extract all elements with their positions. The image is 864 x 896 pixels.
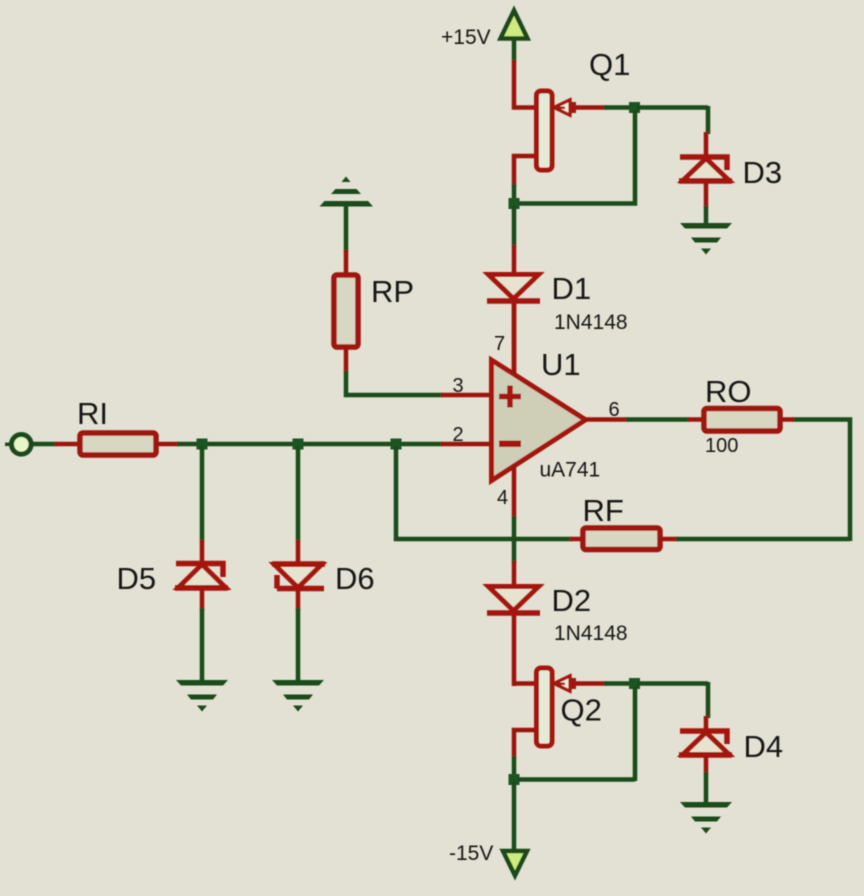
resistor RF xyxy=(570,528,678,550)
svg-text:+15V: +15V xyxy=(441,26,491,49)
wire D6 branch xyxy=(296,446,301,542)
plus input mark xyxy=(499,386,521,408)
wire pin6 to RO xyxy=(626,417,690,422)
diode D5 (zener) xyxy=(175,540,228,610)
ground (below D3) xyxy=(680,223,732,255)
wire D5 to ground xyxy=(200,608,205,682)
resistor RP xyxy=(334,250,358,373)
svg-text:Q2: Q2 xyxy=(561,693,602,728)
wire node to D1 xyxy=(512,206,517,247)
junction node D6 xyxy=(293,439,304,450)
wire gate node to D3 xyxy=(637,106,708,134)
wire input line xyxy=(177,442,443,447)
svg-text:1N4148: 1N4148 xyxy=(554,622,628,645)
ground (below D4) xyxy=(680,802,732,834)
svg-text:D5: D5 xyxy=(117,561,157,596)
wire RP to pin3 xyxy=(346,371,443,395)
wire D4 to ground xyxy=(704,772,709,804)
wire Q1 gate to node xyxy=(604,105,633,110)
gate pin wire xyxy=(576,105,606,110)
svg-text:U1: U1 xyxy=(541,347,581,382)
svg-text:RO: RO xyxy=(705,374,752,409)
svg-text:uA741: uA741 xyxy=(540,459,601,482)
gate arrow xyxy=(554,100,570,115)
svg-text:100: 100 xyxy=(705,435,738,457)
wire RF to feedback corner xyxy=(676,420,850,542)
channel bar xyxy=(537,668,553,746)
wire Q2 source to node xyxy=(512,756,517,778)
minus input mark xyxy=(499,441,521,448)
svg-text:D6: D6 xyxy=(335,561,375,596)
ground (below D6) xyxy=(272,680,324,712)
diode D1 xyxy=(487,245,540,374)
drain pin wire xyxy=(514,60,535,108)
wire terminal to RI xyxy=(32,442,57,447)
svg-text:Q1: Q1 xyxy=(589,47,630,82)
svg-text:RF: RF xyxy=(583,493,624,528)
pin 7 wire xyxy=(512,303,517,374)
pin 4 wire xyxy=(512,464,517,518)
wire +15V stem xyxy=(512,40,517,62)
pin 6 wire xyxy=(584,417,628,422)
resistor RO xyxy=(688,409,794,432)
ground (above RP, inverted) xyxy=(320,177,374,207)
pin 2 wire xyxy=(441,442,489,447)
op-amp U1 xyxy=(441,303,628,518)
junction node D5 xyxy=(197,439,208,450)
body triangle xyxy=(492,360,586,481)
junction node Q2 gate xyxy=(629,678,640,689)
junction node source xyxy=(509,198,520,209)
svg-text:7: 7 xyxy=(494,333,505,355)
svg-text:4: 4 xyxy=(497,487,508,509)
wire gate node to D4 xyxy=(637,682,708,718)
wire inverting node down to RF xyxy=(396,446,572,539)
svg-text:D2: D2 xyxy=(552,583,592,618)
ground (below D5) xyxy=(176,680,228,712)
svg-text:3: 3 xyxy=(453,375,464,397)
wire gate node down to source node xyxy=(518,110,635,204)
drain pin wire xyxy=(514,681,535,686)
pin 3 wire xyxy=(441,393,489,398)
channel bar xyxy=(537,91,553,170)
gate arrow xyxy=(554,676,570,691)
diode D2 xyxy=(487,561,540,686)
transistor Q1 xyxy=(514,60,606,186)
terminal input xyxy=(5,435,31,455)
wire source node to gate node xyxy=(518,687,635,781)
wire pin4 to D2 xyxy=(512,516,517,563)
power +15V symbol xyxy=(501,11,528,39)
source pin wire xyxy=(514,156,535,186)
source pin wire xyxy=(514,730,535,758)
gate pin wire xyxy=(576,681,606,686)
svg-text:6: 6 xyxy=(609,399,620,421)
wire ground to RP xyxy=(344,206,349,252)
junction node gate/drain loop xyxy=(629,102,640,113)
junction node source Q2 xyxy=(509,774,520,785)
svg-text:RP: RP xyxy=(371,274,414,309)
diode D6 (zener, reversed) xyxy=(272,540,325,610)
transistor Q2 xyxy=(514,668,606,758)
resistor RI xyxy=(55,433,179,455)
svg-text:1N4148: 1N4148 xyxy=(554,311,628,334)
wire D5 branch xyxy=(200,446,205,542)
wire node to -15V xyxy=(512,782,517,852)
svg-text:D3: D3 xyxy=(743,155,783,190)
power -15V symbol xyxy=(503,851,527,876)
diode D4 (zener) xyxy=(679,716,732,774)
wire D6 to ground xyxy=(296,608,301,682)
wire D3 to ground xyxy=(704,206,709,225)
wire Q1 source to node xyxy=(512,184,517,202)
svg-text:RI: RI xyxy=(77,396,108,431)
svg-text:D1: D1 xyxy=(552,271,592,306)
svg-text:D4: D4 xyxy=(744,729,784,764)
svg-text:2: 2 xyxy=(453,424,464,446)
diode D3 (zener) xyxy=(679,132,732,208)
svg-text:-15V: -15V xyxy=(449,842,493,865)
wire Q2 gate to node xyxy=(604,681,633,686)
junction node RF tap xyxy=(391,439,402,450)
